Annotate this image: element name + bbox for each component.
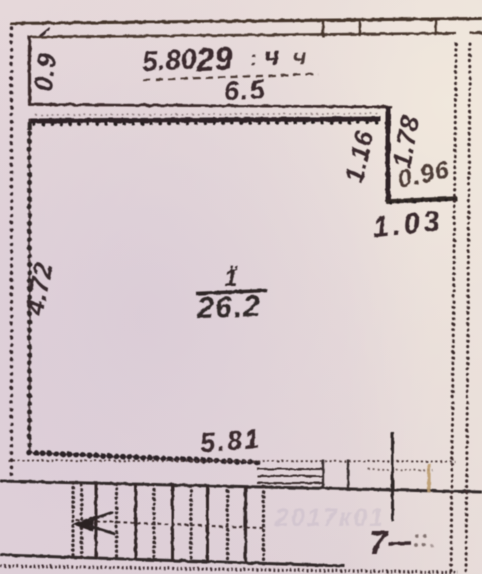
section mark long vertical xyxy=(391,432,394,521)
room bottom wall (thick) xyxy=(28,453,258,463)
right dotted wall column A xyxy=(451,44,456,574)
dim label 1.78 xyxy=(387,113,426,170)
balcony dim label 0.9 xyxy=(28,51,62,93)
faint dotted line above top wall xyxy=(36,114,378,116)
right dotted wall column B xyxy=(466,44,470,574)
svg-text:29: 29 xyxy=(194,39,234,78)
dim label 1.16 xyxy=(338,127,379,185)
stair tread dotted 4 xyxy=(189,485,192,561)
stair tread solid 3 xyxy=(171,485,174,561)
stair tread dotted 3 xyxy=(152,485,155,560)
notch bottom wall xyxy=(386,199,457,202)
stair tread dotted 5 xyxy=(226,486,229,562)
top wall inner line right segment xyxy=(470,31,482,34)
svg-text:ч: ч xyxy=(263,41,281,72)
dashed line below bottom wall xyxy=(8,461,455,462)
window tick 3 xyxy=(435,20,438,36)
top exterior wall inner line xyxy=(28,33,456,37)
threshold steps line 2 xyxy=(257,475,323,477)
threshold box left vertical xyxy=(322,460,324,489)
room top wall (thick) xyxy=(28,119,381,121)
tan door jamb vertical xyxy=(427,464,430,493)
svg-text:ч: ч xyxy=(292,43,307,70)
stray pen tick above 0.9 xyxy=(40,28,50,36)
threshold steps line 3 xyxy=(257,482,323,484)
room left wall (beaded) xyxy=(29,118,31,453)
window tick 1 xyxy=(322,21,325,37)
stair tread solid 2 xyxy=(134,484,137,559)
balcony left wall xyxy=(28,36,31,104)
stair tread solid 1 xyxy=(95,483,98,558)
stair tread solid 5 xyxy=(244,487,247,563)
svg-text:,,: ,, xyxy=(229,255,239,272)
top exterior wall outer line xyxy=(10,19,482,24)
faint dashed line right extension xyxy=(368,469,433,471)
dim label 4.72 xyxy=(19,260,59,318)
left exterior dotted wall xyxy=(10,28,13,476)
corridor top line xyxy=(0,481,482,492)
balcony dim label 5.80 xyxy=(141,36,307,82)
dashed dimension underline xyxy=(143,74,318,80)
window tick 2 xyxy=(359,21,362,37)
dim label 0.96 xyxy=(395,155,452,193)
svg-text:2017к01: 2017к01 xyxy=(274,504,385,532)
svg-text:6.5: 6.5 xyxy=(223,74,267,106)
bottom dashed plan edge xyxy=(0,566,458,573)
svg-text:5.80: 5.80 xyxy=(141,43,197,77)
balcony bottom line xyxy=(28,105,392,108)
threshold steps line 1 xyxy=(257,468,323,470)
threshold box right vertical xyxy=(347,460,349,489)
stair tread solid 4 xyxy=(206,486,209,562)
svg-text:26.2: 26.2 xyxy=(196,290,262,325)
fraction bar xyxy=(196,291,267,294)
stair tread dotted 6 xyxy=(262,487,265,563)
staircase bottom line xyxy=(0,555,345,566)
stair walk dashed line xyxy=(76,521,263,529)
svg-text:0.9: 0.9 xyxy=(28,51,62,93)
dim label 1.03 xyxy=(371,205,444,244)
stair tread dotted 2 xyxy=(115,484,118,559)
svg-text::: : xyxy=(249,47,257,70)
faded dots after dash xyxy=(414,534,433,547)
dash after 7 xyxy=(388,541,411,545)
svg-text:5.81: 5.81 xyxy=(199,424,262,458)
stair tread dotted 1b xyxy=(80,485,83,558)
notch vertical wall xyxy=(386,107,391,203)
stair direction arrow xyxy=(73,515,95,532)
stair tread dotted 1a xyxy=(71,483,74,558)
